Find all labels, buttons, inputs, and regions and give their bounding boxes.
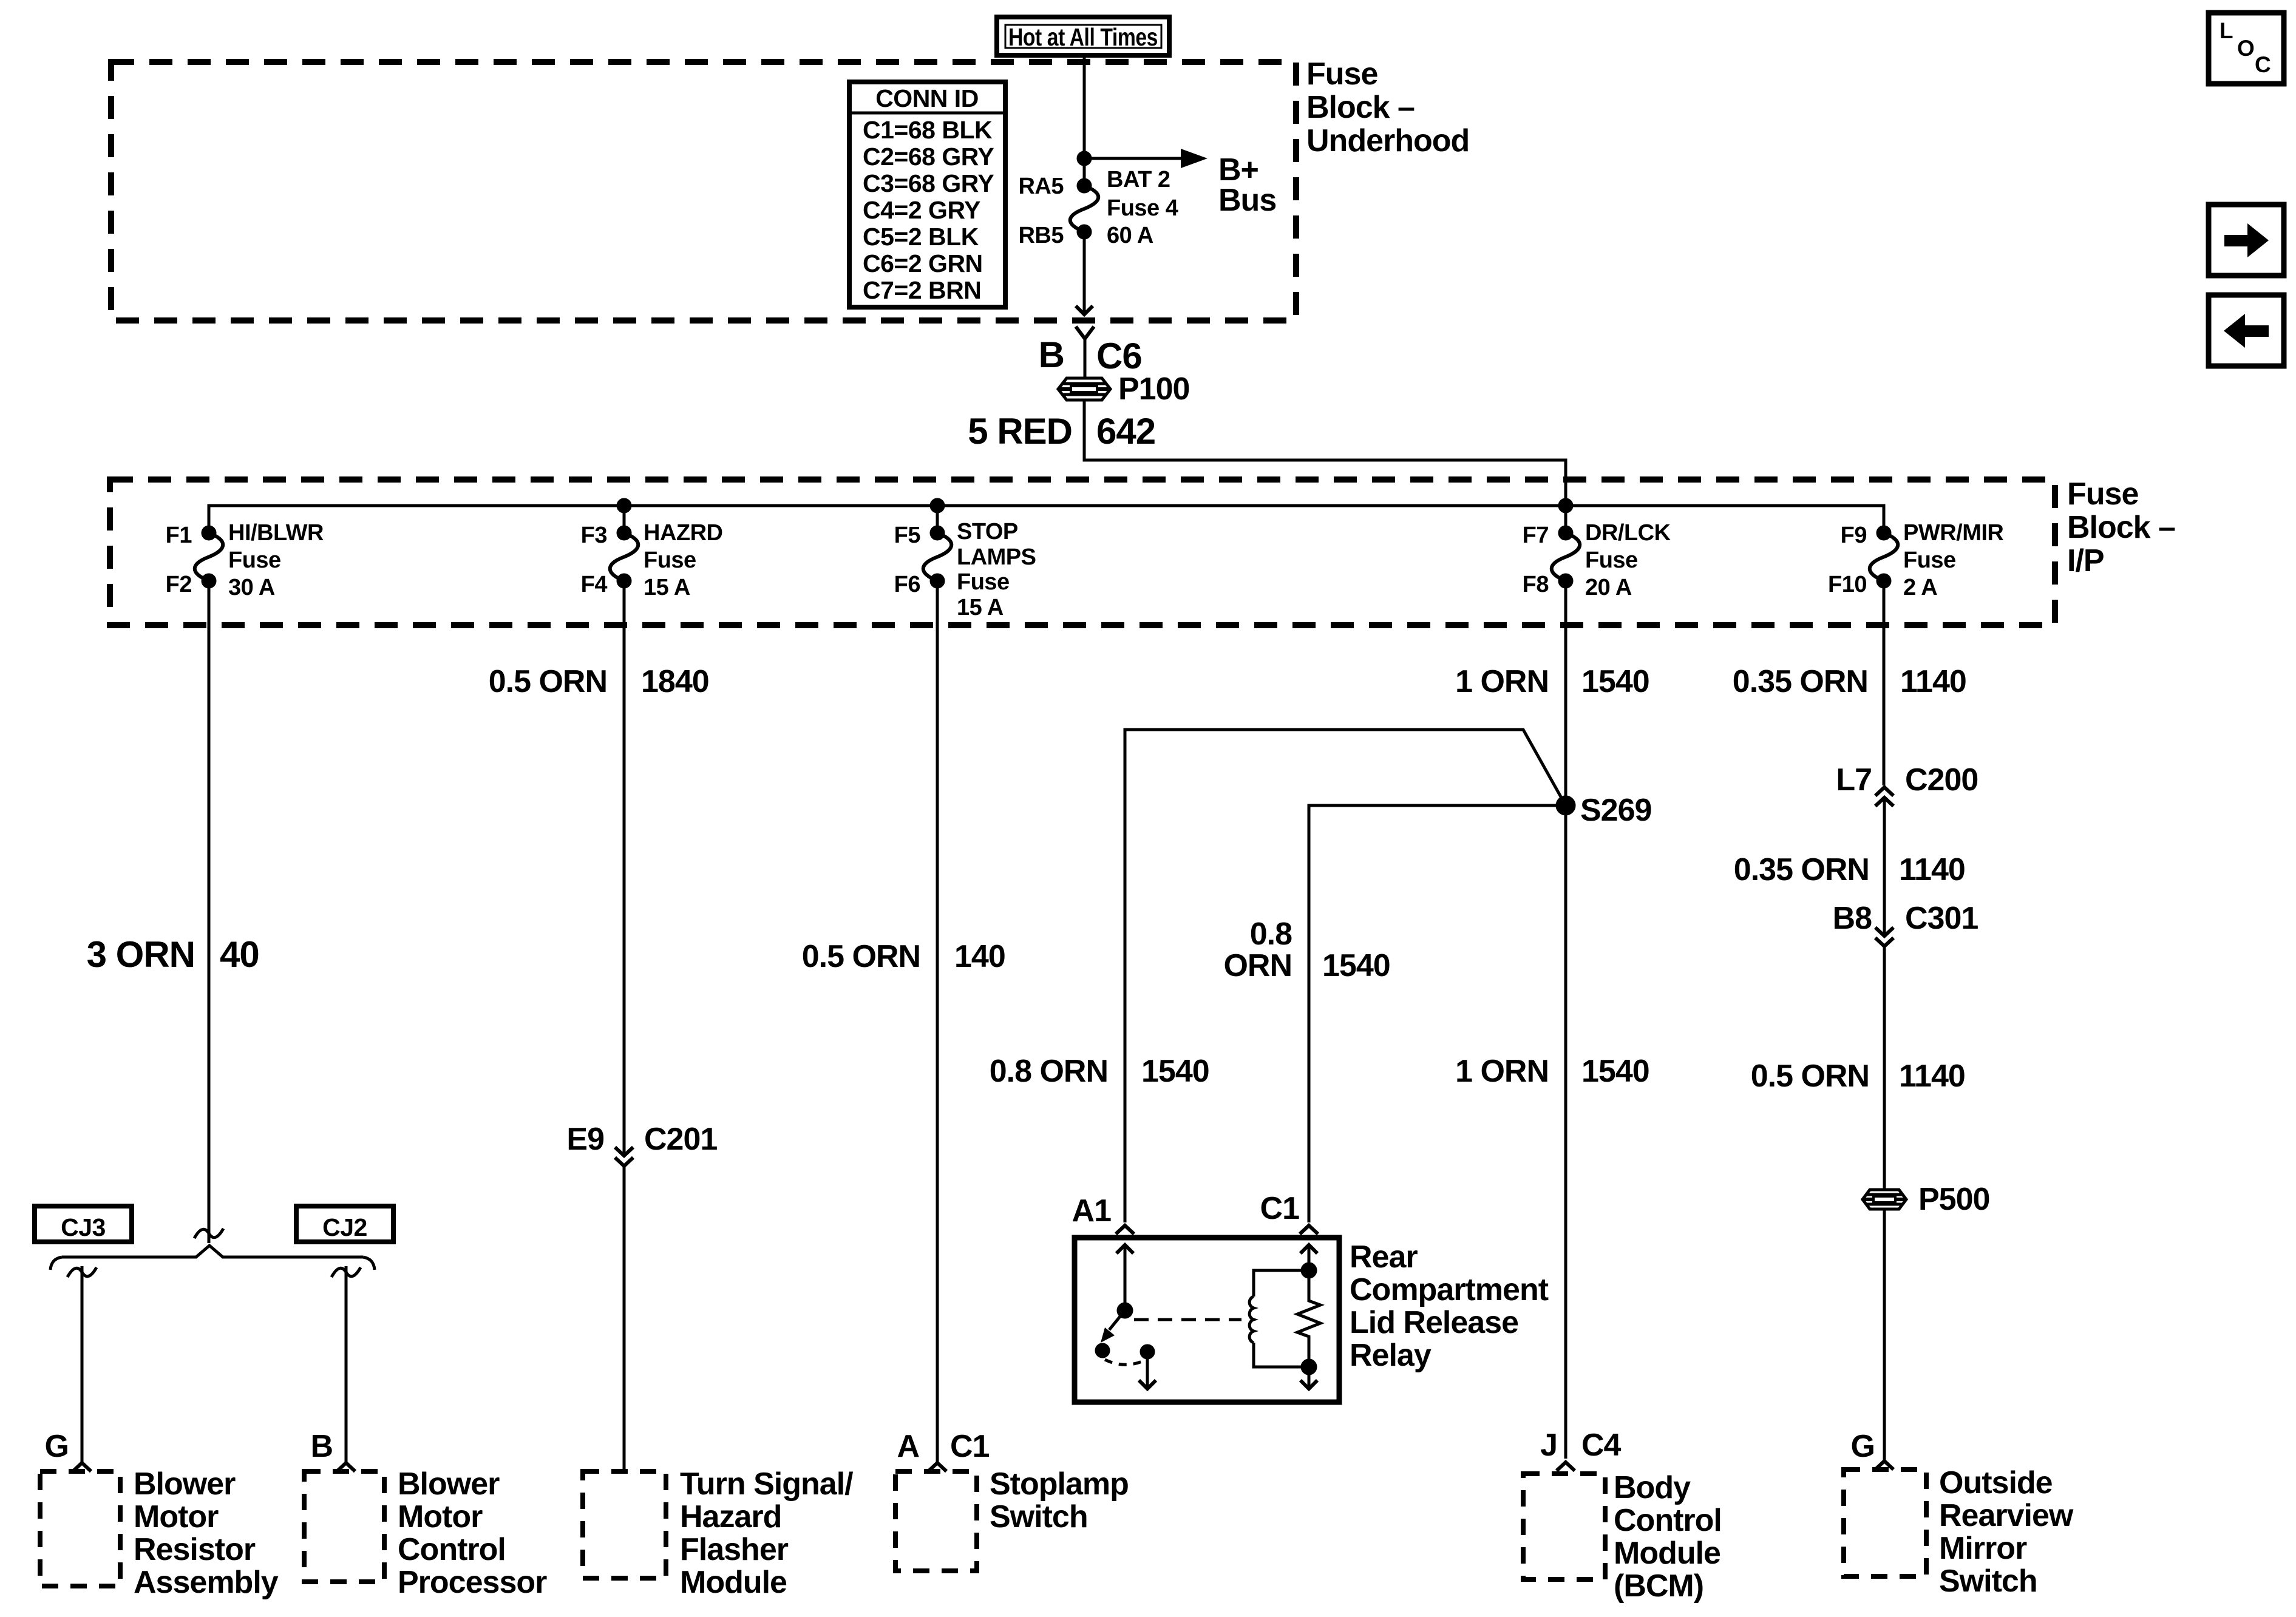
svg-text:2 A: 2 A <box>1903 575 1937 600</box>
wire 5 RED 642 <box>968 400 1566 506</box>
wire S269 to relay pin C1 <box>1309 805 1566 1222</box>
svg-text:Underhood: Underhood <box>1306 123 1469 158</box>
svg-text:Resistor: Resistor <box>134 1532 256 1567</box>
svg-text:642: 642 <box>1096 411 1155 452</box>
wire 0.5 ORN 1840 <box>489 581 709 1154</box>
wire 1 ORN 1540 S269 to BCM <box>1455 805 1649 1459</box>
grommet P500 <box>1863 1182 1989 1217</box>
left arrow navigation box <box>2209 295 2284 366</box>
svg-text:1540: 1540 <box>1581 1054 1649 1089</box>
svg-text:0.8: 0.8 <box>1250 917 1292 952</box>
svg-text:1140: 1140 <box>1900 664 1966 699</box>
svg-text:0.35 ORN: 0.35 ORN <box>1734 852 1869 887</box>
svg-text:F3: F3 <box>581 523 607 548</box>
fuse F7/F8 DR/LCK <box>1523 520 1671 600</box>
svg-text:P100: P100 <box>1118 371 1189 407</box>
svg-text:B8: B8 <box>1833 901 1872 936</box>
svg-text:B: B <box>310 1429 333 1464</box>
svg-text:Rear: Rear <box>1350 1239 1418 1275</box>
svg-text:1840: 1840 <box>641 664 709 699</box>
svg-text:C3=68 GRY: C3=68 GRY <box>863 169 994 197</box>
svg-text:C2=68 GRY: C2=68 GRY <box>863 143 994 171</box>
svg-text:Fuse: Fuse <box>957 569 1010 595</box>
svg-text:1140: 1140 <box>1899 1059 1965 1094</box>
svg-text:LAMPS: LAMPS <box>957 544 1036 570</box>
connector C201 pin E9 <box>566 1122 717 1166</box>
svg-text:Blower: Blower <box>398 1466 500 1502</box>
svg-text:1 ORN: 1 ORN <box>1455 1054 1549 1089</box>
svg-text:P500: P500 <box>1918 1182 1989 1217</box>
relay switch contacts <box>1096 1344 1153 1364</box>
blower motor resistor assembly <box>40 1466 279 1600</box>
svg-text:1 ORN: 1 ORN <box>1455 664 1549 699</box>
svg-text:1140: 1140 <box>1899 852 1965 887</box>
relay coil pin arrow C1 <box>1300 1245 1317 1270</box>
svg-text:Outside: Outside <box>1939 1465 2053 1500</box>
relay switch pin arrow A1 <box>1116 1245 1133 1310</box>
svg-text:F8: F8 <box>1523 572 1549 597</box>
fuse F1/F2 HI/BLWR <box>166 520 324 600</box>
fuse F3/F4 HAZRD <box>581 520 723 600</box>
connector C1 pin A stoplamp switch <box>897 1429 989 1471</box>
connector C6 pin B <box>1039 327 1142 379</box>
node Hot at All Times <box>997 17 1169 55</box>
svg-text:Relay: Relay <box>1350 1338 1432 1373</box>
svg-text:C: C <box>2255 52 2271 77</box>
svg-text:Blower: Blower <box>134 1466 236 1502</box>
wire 0.35 ORN 1140 middle <box>1734 805 1965 934</box>
svg-text:0.5 ORN: 0.5 ORN <box>1751 1059 1869 1094</box>
fuse block underhood boundary <box>111 56 1469 320</box>
svg-text:B: B <box>1039 334 1064 375</box>
svg-text:F10: F10 <box>1828 572 1867 597</box>
wire CJ3 branch to blower motor resistor <box>45 1266 97 1471</box>
svg-text:0.5 ORN: 0.5 ORN <box>489 664 607 699</box>
svg-text:C1=68 BLK: C1=68 BLK <box>863 116 993 144</box>
wire I/P bus <box>209 506 1884 533</box>
connector C301 pin B8 <box>1833 901 1978 946</box>
svg-text:Lid Release: Lid Release <box>1350 1305 1518 1340</box>
LOC legend box <box>2209 13 2284 84</box>
fuse block I/P boundary <box>110 476 2175 625</box>
grommet P100 <box>1058 371 1189 407</box>
svg-text:Body: Body <box>1614 1470 1691 1505</box>
svg-text:BAT 2: BAT 2 <box>1107 167 1170 192</box>
svg-text:C4: C4 <box>1581 1428 1622 1463</box>
svg-text:Hazard: Hazard <box>680 1499 781 1534</box>
svg-text:CJ2: CJ2 <box>322 1213 367 1241</box>
svg-text:F9: F9 <box>1841 523 1867 548</box>
node bus junction F5 <box>931 500 943 512</box>
svg-text:J: J <box>1540 1428 1557 1463</box>
connector C1 at relay <box>1260 1191 1318 1234</box>
svg-text:1540: 1540 <box>1141 1054 1209 1089</box>
svg-text:Fuse: Fuse <box>2067 476 2138 512</box>
svg-text:C4=2 GRY: C4=2 GRY <box>863 196 980 224</box>
svg-text:Fuse: Fuse <box>1903 547 1956 573</box>
body control module <box>1523 1470 1722 1604</box>
wire 3 ORN 40 <box>87 581 259 1243</box>
svg-text:60 A: 60 A <box>1107 223 1153 248</box>
svg-text:DR/LCK: DR/LCK <box>1585 520 1671 546</box>
svg-text:Processor: Processor <box>398 1565 547 1600</box>
svg-text:3 ORN: 3 ORN <box>87 934 195 975</box>
svg-text:F7: F7 <box>1523 523 1549 548</box>
svg-text:CJ3: CJ3 <box>61 1213 106 1241</box>
svg-text:A1: A1 <box>1072 1193 1112 1229</box>
connector C4 pin J BCM <box>1540 1428 1621 1471</box>
splice S269 <box>1557 793 1651 828</box>
svg-text:Block –: Block – <box>2067 510 2175 545</box>
wire 0.5 ORN 140 <box>802 581 1005 1463</box>
svg-text:(BCM): (BCM) <box>1614 1568 1703 1604</box>
turn signal hazard flasher module <box>583 1466 853 1600</box>
svg-text:C7=2 BRN: C7=2 BRN <box>863 276 981 304</box>
wire splice brace to CJ3/CJ2 <box>50 1246 375 1270</box>
svg-text:15 A: 15 A <box>957 595 1004 620</box>
wire P500 to mirror switch <box>1851 1210 1894 1470</box>
svg-text:Switch: Switch <box>990 1499 1088 1534</box>
svg-text:30 A: 30 A <box>228 575 275 600</box>
svg-text:5 RED: 5 RED <box>968 411 1072 452</box>
CONN ID table <box>849 82 1005 307</box>
svg-text:C201: C201 <box>644 1122 717 1157</box>
svg-text:S269: S269 <box>1580 793 1651 828</box>
svg-text:Fuse 4: Fuse 4 <box>1107 195 1178 221</box>
wire battery feed from Hot at All Times <box>1083 55 1086 186</box>
svg-text:O: O <box>2237 36 2255 61</box>
svg-text:L7: L7 <box>1836 762 1872 798</box>
svg-text:Bus: Bus <box>1218 183 1276 218</box>
svg-text:F5: F5 <box>894 523 921 548</box>
svg-text:C301: C301 <box>1905 901 1978 936</box>
node bus junction F3 <box>618 500 630 512</box>
wire 1 ORN 1540 upper <box>1455 581 1649 805</box>
relay coil <box>1249 1264 1316 1374</box>
svg-text:G: G <box>45 1429 69 1464</box>
connector A1 at relay <box>1072 1193 1134 1234</box>
svg-text:Module: Module <box>1614 1536 1720 1571</box>
relay coil output arrow <box>1300 1367 1317 1389</box>
connector C200 pin L7 <box>1836 762 1978 806</box>
svg-text:Stoplamp: Stoplamp <box>990 1466 1129 1502</box>
svg-text:Switch: Switch <box>1939 1564 2037 1599</box>
svg-text:Rearview: Rearview <box>1939 1498 2074 1533</box>
node CJ2 <box>296 1206 393 1242</box>
outside rearview mirror switch <box>1844 1465 2074 1599</box>
svg-text:PWR/MIR: PWR/MIR <box>1903 520 2003 546</box>
svg-text:F1: F1 <box>166 523 192 548</box>
svg-text:G: G <box>1851 1429 1875 1464</box>
svg-text:Fuse: Fuse <box>228 547 281 573</box>
rear compartment lid release relay box <box>1075 1238 1549 1402</box>
right arrow navigation box <box>2209 205 2284 276</box>
svg-text:STOP: STOP <box>957 519 1018 544</box>
svg-text:40: 40 <box>220 934 259 975</box>
wire 0.35 ORN 1140 upper <box>1733 581 1966 785</box>
svg-text:1540: 1540 <box>1322 948 1390 983</box>
svg-text:Turn Signal/: Turn Signal/ <box>680 1466 853 1502</box>
relay resistor <box>1297 1270 1320 1367</box>
wire S269 to relay pin A1 <box>1125 730 1566 1222</box>
svg-text:C5=2 BLK: C5=2 BLK <box>863 223 979 251</box>
svg-text:0.5 ORN: 0.5 ORN <box>802 939 920 974</box>
svg-text:Hot at All Times: Hot at All Times <box>1008 23 1158 51</box>
svg-text:F6: F6 <box>894 572 920 597</box>
svg-text:ORN: ORN <box>1223 948 1292 983</box>
svg-text:0.8 ORN: 0.8 ORN <box>990 1054 1108 1089</box>
svg-text:C6: C6 <box>1096 336 1142 376</box>
wire label 0.8 ORN 1540 (C1) <box>1223 917 1390 983</box>
blower motor control processor <box>304 1466 547 1600</box>
svg-text:Control: Control <box>1614 1503 1722 1538</box>
svg-text:20 A: 20 A <box>1585 575 1632 600</box>
relay switch arm <box>1101 1304 1132 1343</box>
wire bus stub F5 <box>936 506 939 533</box>
fuse BAT 2 Fuse 4 60 A (RA5/RB5) <box>1018 167 1178 248</box>
relay switch output arrow <box>1139 1352 1156 1389</box>
svg-text:HAZRD: HAZRD <box>644 520 722 546</box>
node CJ3 <box>35 1206 132 1242</box>
svg-text:RA5: RA5 <box>1018 174 1064 199</box>
svg-text:C1: C1 <box>1260 1191 1300 1226</box>
wire RB5 down to underhood exit <box>1076 232 1093 314</box>
svg-text:Block –: Block – <box>1306 90 1415 125</box>
svg-text:0.35 ORN: 0.35 ORN <box>1733 664 1868 699</box>
svg-text:Flasher: Flasher <box>680 1532 789 1567</box>
svg-text:C6=2 GRN: C6=2 GRN <box>863 249 983 277</box>
svg-text:Control: Control <box>398 1532 506 1567</box>
svg-text:E9: E9 <box>566 1122 604 1157</box>
svg-text:1540: 1540 <box>1581 664 1649 699</box>
svg-text:15 A: 15 A <box>644 575 690 600</box>
fuse F5/F6 STOP <box>894 519 1036 620</box>
wire 0.5 ORN 1140 <box>1751 946 1965 1190</box>
wire label 0.8 ORN 1540 (A1) <box>990 1054 1209 1089</box>
svg-text:A: A <box>897 1429 919 1464</box>
svg-text:Fuse: Fuse <box>644 547 696 573</box>
svg-text:L: L <box>2220 18 2233 43</box>
svg-text:Assembly: Assembly <box>134 1565 279 1600</box>
svg-text:RB5: RB5 <box>1018 223 1064 248</box>
svg-text:CONN ID: CONN ID <box>875 84 979 112</box>
svg-text:HI/BLWR: HI/BLWR <box>228 520 324 546</box>
svg-text:F2: F2 <box>166 572 192 597</box>
wire C201 to turn signal module <box>623 1166 626 1471</box>
svg-text:I/P: I/P <box>2067 543 2104 578</box>
svg-text:Fuse: Fuse <box>1585 547 1638 573</box>
svg-text:C200: C200 <box>1905 762 1978 798</box>
wire bus stub F3 <box>623 506 626 533</box>
svg-text:Motor: Motor <box>134 1499 219 1534</box>
svg-text:Compartment: Compartment <box>1350 1272 1549 1307</box>
svg-text:Fuse: Fuse <box>1306 56 1377 92</box>
svg-text:F4: F4 <box>581 572 608 597</box>
node bus junction F7 <box>1560 500 1572 512</box>
svg-text:C1: C1 <box>950 1429 990 1464</box>
node B+ Bus branch <box>1078 149 1276 218</box>
stoplamp switch <box>895 1466 1129 1571</box>
svg-text:Mirror: Mirror <box>1939 1531 2027 1566</box>
relay coupling dashed line <box>1134 1318 1241 1321</box>
fuse F9/F10 PWR/MIR <box>1828 520 2003 600</box>
wire CJ2 branch to blower motor control processor <box>310 1266 361 1471</box>
svg-text:Module: Module <box>680 1565 787 1600</box>
wire bus stub F7 <box>1564 506 1567 533</box>
svg-text:Motor: Motor <box>398 1499 483 1534</box>
svg-text:140: 140 <box>954 939 1005 974</box>
